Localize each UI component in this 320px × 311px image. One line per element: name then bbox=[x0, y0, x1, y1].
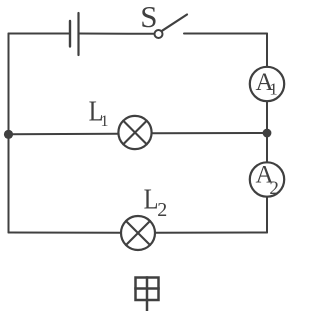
wire A1 to A2 bbox=[266, 101, 268, 162]
lamp L2 cross bbox=[126, 221, 150, 245]
wire middle branch left bbox=[9, 133, 119, 136]
lamp L2 circle bbox=[121, 216, 155, 250]
wire bottom left bbox=[9, 232, 122, 234]
battery B1 long plate bbox=[77, 13, 79, 55]
svg-text:1: 1 bbox=[269, 79, 278, 98]
label jia (甲) drawn bbox=[136, 278, 159, 311]
wire left vertical bbox=[8, 34, 10, 233]
ammeter A2 circle bbox=[250, 162, 284, 196]
battery B1 short plate bbox=[69, 21, 71, 47]
switch S arm bbox=[162, 15, 187, 31]
svg-text:2: 2 bbox=[157, 199, 167, 221]
wire bottom right bbox=[155, 232, 267, 234]
wire switch to top right corner bbox=[184, 33, 267, 35]
svg-text:1: 1 bbox=[101, 113, 109, 130]
wire A2 to bottom right corner bbox=[266, 197, 268, 233]
svg-text:S: S bbox=[140, 0, 157, 34]
switch S pivot bbox=[155, 30, 163, 38]
svg-text:2: 2 bbox=[269, 178, 279, 199]
node left junction bbox=[4, 130, 13, 139]
wire right vertical to A1 bbox=[266, 34, 268, 67]
wire middle branch right bbox=[152, 132, 267, 134]
wire battery to switch bbox=[79, 33, 155, 35]
node right junction bbox=[263, 129, 272, 138]
wire top left to battery bbox=[9, 33, 71, 35]
lamp L1 cross bbox=[123, 121, 146, 144]
ammeter A1 circle bbox=[250, 67, 284, 101]
lamp L1 circle bbox=[118, 116, 151, 149]
